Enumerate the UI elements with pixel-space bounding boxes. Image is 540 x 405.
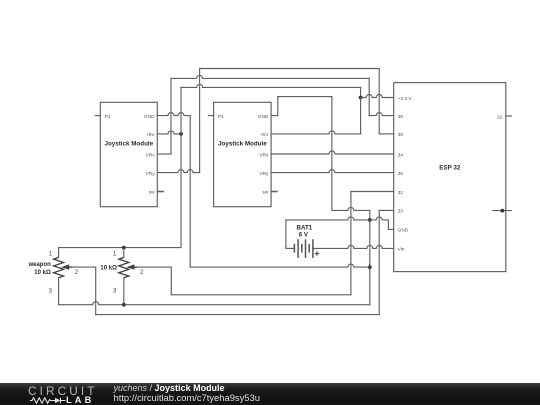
wire: +3.3V net to potentiometer tops y=247.6 <box>59 247 181 249</box>
wire: drop to +3.3V node <box>360 87 362 97</box>
wire: jog down to ESP GND pin <box>387 220 389 230</box>
potentiometer R2 wiper arrow <box>133 266 138 268</box>
wire: into ESP pin 32 <box>351 191 394 193</box>
svg-text:35: 35 <box>398 171 404 177</box>
svg-text:Joystick Module: Joystick Module <box>104 141 153 148</box>
wire: right GND horizontal y=96.6 <box>278 96 332 98</box>
svg-text:VRy: VRy <box>146 171 156 177</box>
P1 (right) pin stub P1 <box>209 115 214 117</box>
wire: right VRy to ESP 35 <box>271 170 394 173</box>
wire: GND vertical x=369.8 <box>369 210 371 304</box>
BAT1 plus sign <box>315 251 320 256</box>
svg-text:VRx: VRx <box>259 152 269 158</box>
ESP 32 module U1 body <box>394 83 506 272</box>
svg-text:Joystick Module: Joystick Module <box>218 141 267 148</box>
joystick module P1 (right) body <box>214 102 272 206</box>
P1 (left) pin stub sw <box>157 191 164 193</box>
wire: R1 pin1 riser <box>58 248 60 258</box>
node: junction left +5V / +3.3V net <box>179 132 183 136</box>
svg-text:GND: GND <box>398 228 409 234</box>
footer bar <box>0 383 540 405</box>
svg-text:33: 33 <box>398 209 404 215</box>
svg-text:ESP 32: ESP 32 <box>439 164 461 171</box>
P1 (right) pin stub sw <box>271 191 278 193</box>
wire: right GND vertical x=331.9 <box>331 97 333 211</box>
svg-text:39: 39 <box>398 132 404 138</box>
CircuitLab logo <box>28 386 98 397</box>
wire: vertical riser x=171 <box>170 78 172 154</box>
wire: right module GND stub run <box>271 115 278 117</box>
svg-text:+3.3 V: +3.3 V <box>398 96 413 102</box>
logo resistor + diode mark <box>30 397 68 404</box>
wire: riser x=350.9 to ESP 32 <box>350 192 352 295</box>
wire: left VRx stub run <box>157 153 171 155</box>
svg-text:10 kΩ: 10 kΩ <box>100 266 117 272</box>
battery BAT1 plates <box>294 239 313 258</box>
wire: into ESP pin 33 <box>379 209 394 211</box>
svg-text:GND: GND <box>144 114 155 120</box>
svg-text:BAT1: BAT1 <box>297 225 313 232</box>
svg-text:sw: sw <box>263 191 269 196</box>
wire: left +5V to node <box>157 131 181 134</box>
wire: y=314.6 rail <box>96 314 380 316</box>
wire: R1 pin3 drop <box>58 278 60 305</box>
svg-text:VRx: VRx <box>146 152 156 158</box>
svg-text:10 kΩ: 10 kΩ <box>34 270 51 276</box>
wire: left GND horizontal y=267.1 <box>190 264 370 267</box>
wire: battery minus riser <box>285 220 287 249</box>
svg-text:VRy: VRy <box>259 171 269 177</box>
wire: into ESP pin 36 <box>369 113 394 116</box>
wire: right GND riser <box>277 97 279 116</box>
wire: battery plus to ESP Vin <box>313 245 394 248</box>
svg-text:Vin: Vin <box>398 247 405 253</box>
svg-text:6 V: 6 V <box>299 232 309 239</box>
wire: into ESP pin 39 <box>379 133 394 135</box>
svg-text:P1: P1 <box>105 114 111 120</box>
wire: R2 wiper run <box>129 266 172 268</box>
wire: battery minus lead <box>286 247 294 249</box>
svg-text:GND: GND <box>258 114 269 120</box>
wire: R2 pin1 riser <box>123 248 125 258</box>
wire: R2 wiper drop x=171.3 <box>170 267 172 295</box>
node: junction +3.3V <box>359 96 363 100</box>
P1 (left) pin stub P1 <box>95 115 100 117</box>
footer meta text <box>114 384 260 403</box>
wire: R2 pin3 drop <box>123 278 125 305</box>
ESP 32 pin stub 22 <box>506 115 512 117</box>
wire: into ESP +3.3V pin <box>361 95 394 98</box>
svg-text:weapon: weapon <box>27 262 51 268</box>
wire: left GND vertical x=190.2 <box>189 116 191 268</box>
potentiometer R1 (weapon) zigzag body <box>54 257 64 277</box>
wire: GND row y=219.9 to ESP GND jog <box>286 217 389 220</box>
svg-text:P1: P1 <box>218 114 224 120</box>
potentiometer R2 zigzag body <box>119 257 129 277</box>
ESP 32 right pin stub with junction <box>493 210 512 212</box>
wire: left VRy to ESP 39 (segment along VRy row) <box>157 170 199 173</box>
joystick module P1 (left) body <box>100 102 157 206</box>
svg-text:36: 36 <box>398 114 404 120</box>
wire: vertical riser x=199.6 <box>199 69 201 173</box>
potentiometer R1 wiper arrow <box>68 266 73 268</box>
svg-text:32: 32 <box>398 190 404 196</box>
svg-text:sw: sw <box>149 191 155 196</box>
wire: vertical drop to 36 row <box>368 78 370 115</box>
svg-text:22: 22 <box>497 114 503 120</box>
wire: pots bottom rail y=304.7 <box>59 302 370 305</box>
svg-text:+5V: +5V <box>146 132 155 138</box>
wire: top horizontal y=68.5 <box>200 68 380 70</box>
wire: to right module +5V <box>271 131 361 134</box>
svg-text:34: 34 <box>398 152 404 158</box>
wire: right VRx to ESP 34 <box>271 151 394 154</box>
node: junction R2 pin3 <box>122 303 126 307</box>
wire: vertical drop to 39 row <box>378 69 380 134</box>
wire: R1 wiper drop x=95.7 <box>95 267 97 315</box>
svg-text:+5V: +5V <box>260 132 269 138</box>
wire: left module GND run <box>157 113 190 116</box>
wire: into ESP GND pin <box>388 228 393 230</box>
wire: vertical x=181 (+3.3V net) <box>180 87 182 247</box>
node: junction GND/left-module <box>368 265 372 269</box>
wire: horizontal y=78.4 <box>171 75 369 78</box>
wire: +3.3V node down-leg <box>360 98 362 134</box>
node: junction GND/battery <box>368 218 372 222</box>
wire: R1 wiper run <box>63 266 95 268</box>
node: junction at R2 pin1 <box>122 246 126 250</box>
wire: riser x=379.2 to ESP 33 <box>378 210 380 314</box>
wire: horizontal y=87.4 <box>181 84 361 87</box>
wire: y=294.8 rail <box>171 294 351 296</box>
wire: GND jog y=210.4 <box>332 207 370 210</box>
